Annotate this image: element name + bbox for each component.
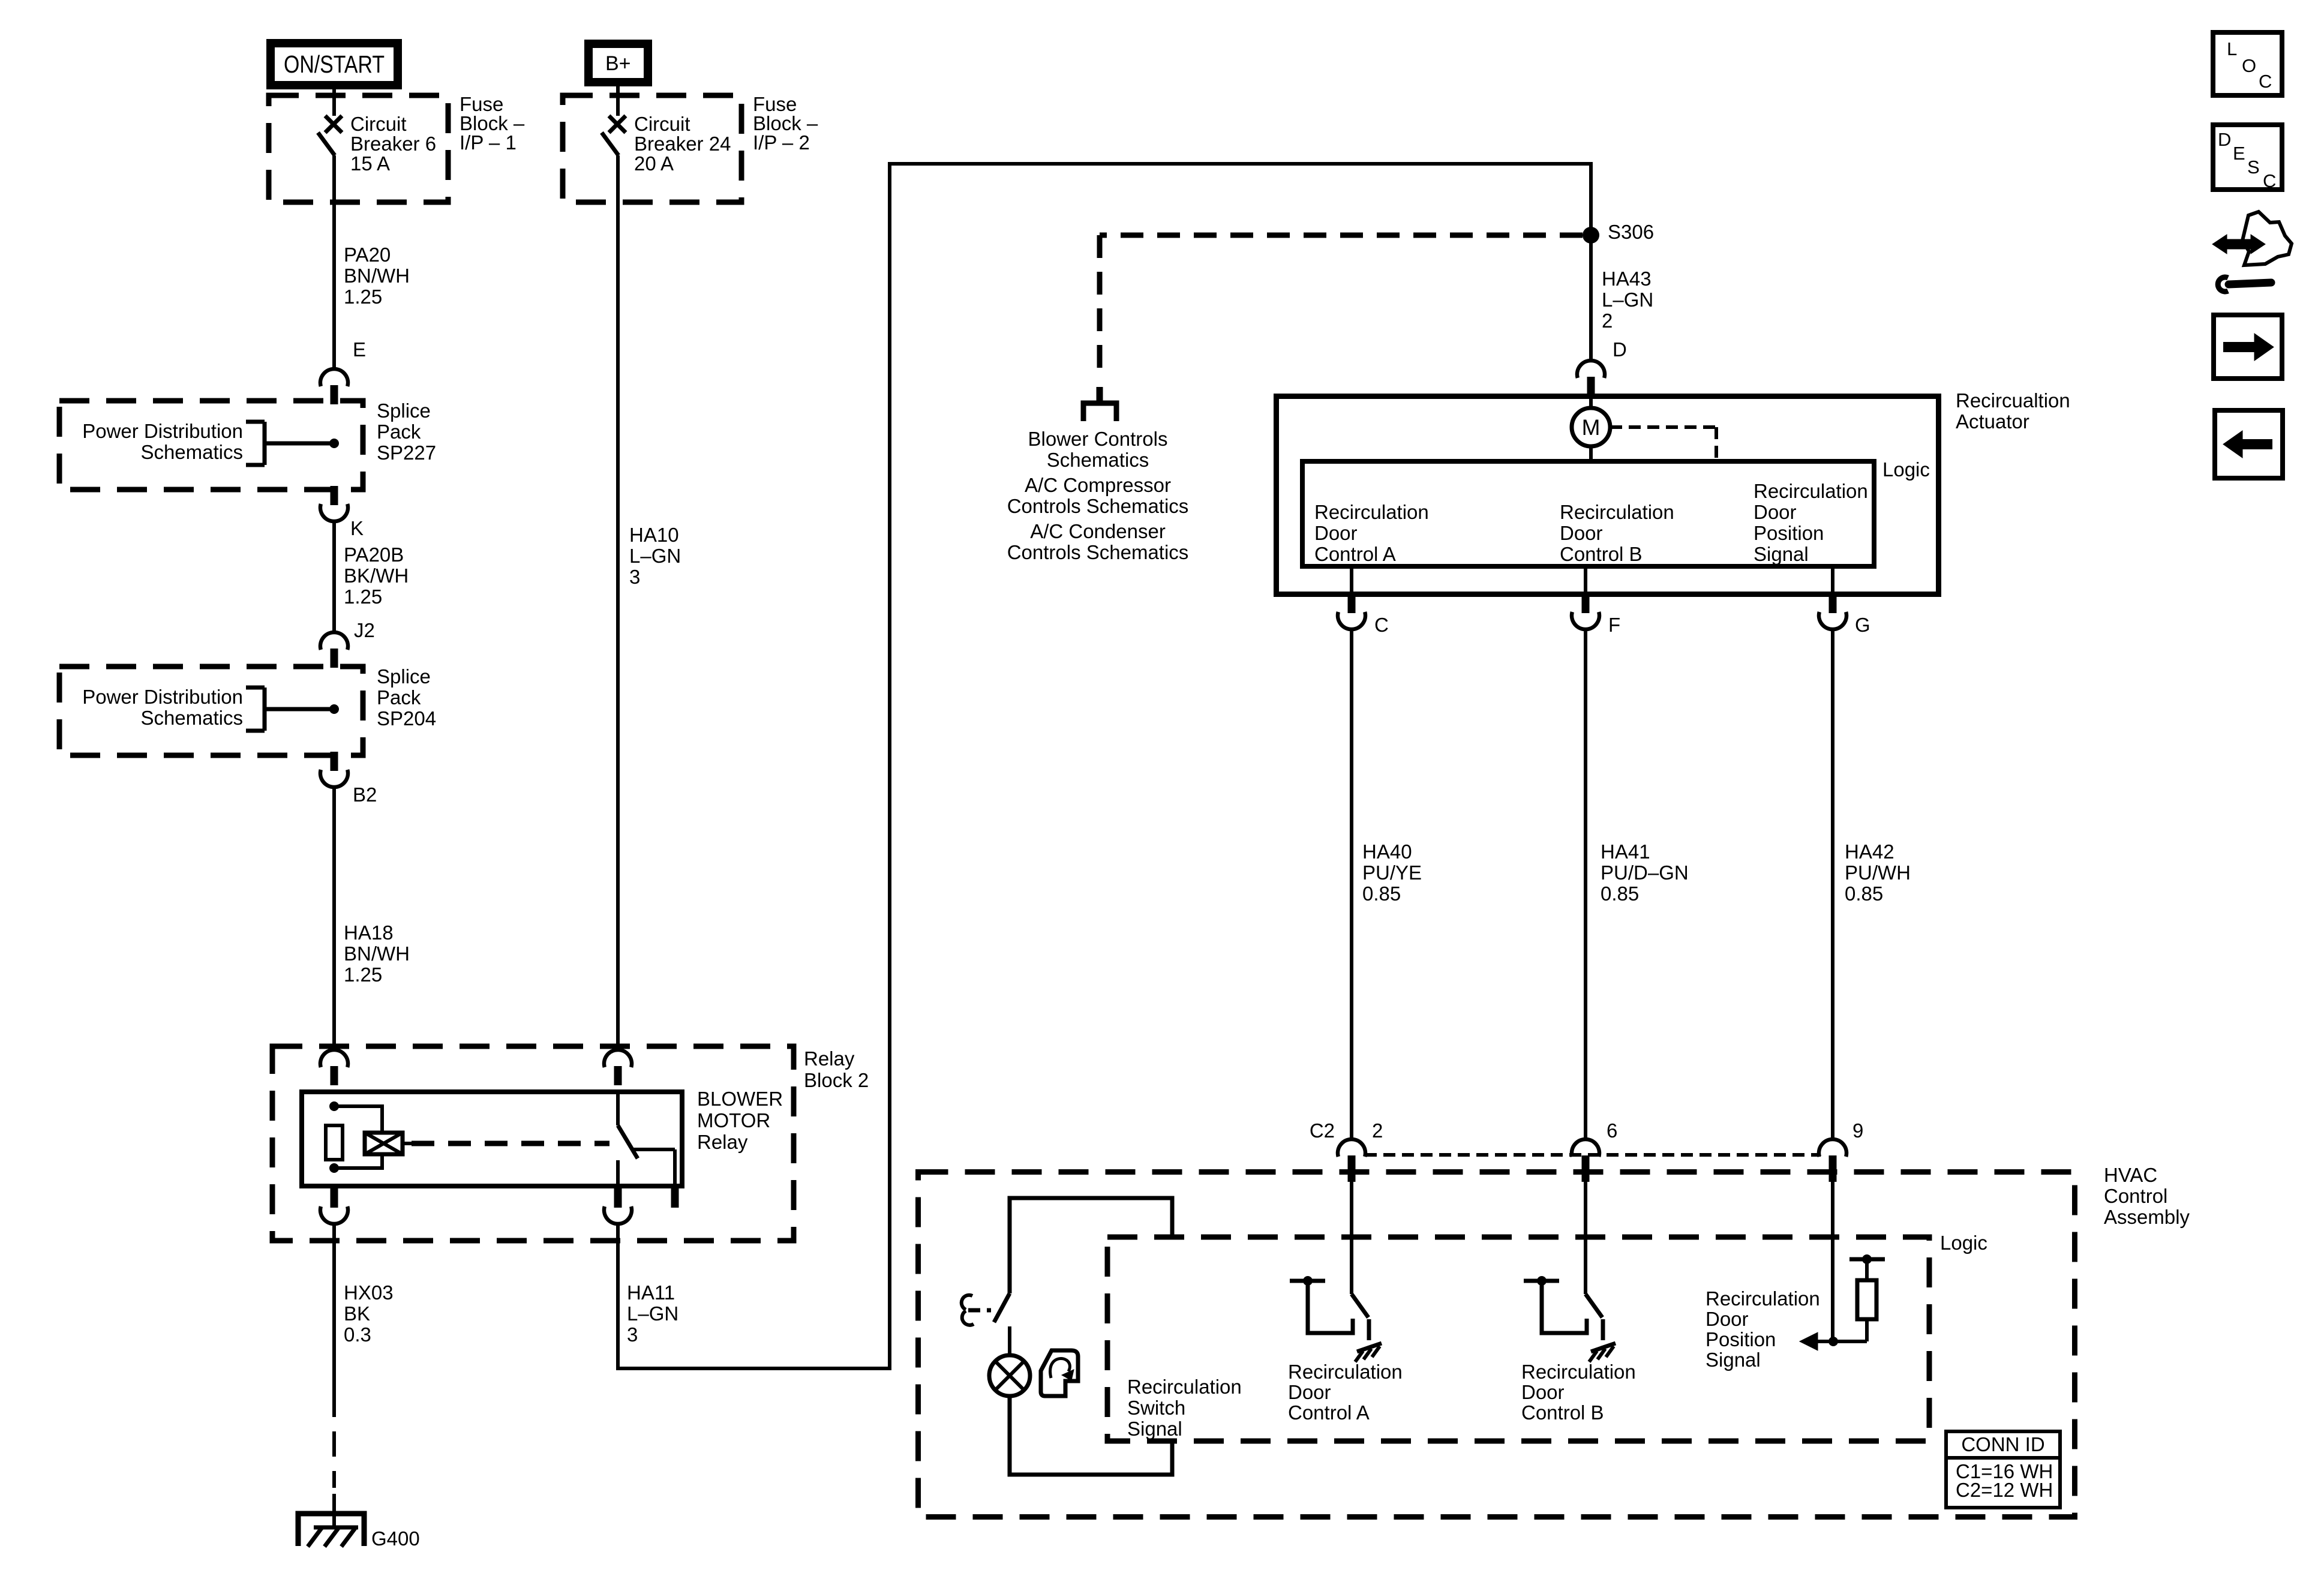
connector pin 9: [1819, 1119, 1863, 1182]
splice pack SP204 dashed box: [59, 667, 363, 755]
blower motor relay box: [302, 1092, 682, 1186]
svg-text:HA40: HA40: [1362, 840, 1412, 863]
svg-text:Breaker 6: Breaker 6: [350, 133, 436, 155]
label HA43 L-GN 2: [1602, 268, 1653, 332]
svg-text:Recirculation: Recirculation: [1706, 1287, 1820, 1310]
wire PA20B: [332, 521, 336, 632]
svg-text:Pack: Pack: [377, 421, 421, 443]
svg-text:Schematics: Schematics: [1047, 449, 1149, 471]
icon vehicle data arrow: [2212, 212, 2292, 292]
svg-text:HA11: HA11: [627, 1281, 675, 1304]
label Recirculation Door Position Signal (actuator): [1753, 480, 1868, 565]
fuse block IP1 dashed box: [269, 95, 448, 202]
svg-text:Actuator: Actuator: [1956, 410, 2029, 433]
svg-text:Splice: Splice: [377, 400, 431, 422]
svg-text:E: E: [353, 338, 366, 361]
wire pin 9 to position sense: [1831, 1182, 1834, 1341]
ground (control B): [1589, 1343, 1616, 1362]
svg-text:Position: Position: [1753, 522, 1824, 544]
svg-text:Recircualtion: Recircualtion: [1956, 389, 2070, 412]
connector relay top right: [604, 1050, 632, 1085]
node splice SP204: [329, 704, 339, 714]
resistor position sense: [1818, 1254, 1885, 1341]
svg-text:Door: Door: [1521, 1381, 1565, 1403]
svg-text:C2=12 WH: C2=12 WH: [1956, 1479, 2053, 1501]
label Blower Controls Schematics: [1028, 428, 1168, 471]
svg-text:Door: Door: [1753, 501, 1797, 523]
svg-text:2: 2: [1372, 1119, 1383, 1142]
svg-text:SP227: SP227: [377, 442, 436, 464]
svg-text:HA18: HA18: [344, 921, 394, 944]
bracket link SP227: [246, 422, 334, 465]
svg-text:Assembly: Assembly: [2104, 1206, 2190, 1228]
label Circuit Breaker 6 15 A: [350, 113, 436, 175]
HVAC control assembly dashed box: [918, 1172, 2075, 1517]
ground (control A): [1355, 1343, 1382, 1362]
C2 dashed connector link: [1365, 1153, 1821, 1157]
svg-text:C: C: [1374, 614, 1389, 636]
svg-text:A/C Compressor: A/C Compressor: [1025, 474, 1171, 496]
label HA41 PU/D-GN 0.85: [1601, 840, 1689, 905]
svg-text:D: D: [2218, 129, 2231, 150]
svg-text:Power Distribution: Power Distribution: [82, 686, 243, 708]
ground G400: [298, 1514, 420, 1550]
label HA42 PU/WH 0.85: [1845, 840, 1911, 905]
relay coil circuit: [326, 1101, 412, 1173]
fuse block IP2 dashed box: [563, 95, 741, 202]
svg-text:BN/WH: BN/WH: [344, 942, 410, 965]
connector pin E: [320, 338, 366, 404]
svg-text:PU/D–GN: PU/D–GN: [1601, 861, 1689, 884]
svg-text:Recirculation: Recirculation: [1560, 501, 1674, 523]
actuator logic box: [1302, 458, 1930, 566]
label Logic (HVAC): [1940, 1232, 1987, 1254]
power feed ON/START box: [271, 43, 398, 85]
svg-text:D: D: [1613, 338, 1627, 361]
label Recirculation Switch Signal: [1127, 1376, 1242, 1440]
connector relay bottom right: [604, 1188, 632, 1224]
switch Recirculation Door Control A: [1290, 1182, 1369, 1340]
svg-text:Blower Controls: Blower Controls: [1028, 428, 1168, 450]
label Recirculation Door Control B (actuator): [1560, 501, 1674, 565]
svg-text:Signal: Signal: [1706, 1349, 1761, 1371]
svg-text:S: S: [2247, 157, 2260, 178]
svg-text:G: G: [1855, 614, 1870, 636]
svg-text:6: 6: [1607, 1119, 1617, 1142]
label Fuse Block IP2: [753, 93, 818, 154]
svg-text:Recirculation: Recirculation: [1753, 480, 1868, 502]
svg-text:HX03: HX03: [344, 1281, 394, 1304]
svg-text:Control A: Control A: [1288, 1401, 1370, 1424]
svg-text:Control B: Control B: [1560, 543, 1643, 565]
HVAC logic dashed box: [1107, 1237, 1929, 1441]
svg-text:HA42: HA42: [1845, 840, 1894, 863]
svg-text:G400: G400: [371, 1527, 420, 1550]
svg-text:E: E: [2233, 143, 2245, 164]
svg-text:PA20B: PA20B: [344, 544, 404, 566]
svg-text:Control A: Control A: [1314, 543, 1396, 565]
svg-text:L–GN: L–GN: [1602, 289, 1653, 311]
svg-text:Breaker 24: Breaker 24: [634, 133, 731, 155]
svg-text:Logic: Logic: [1882, 458, 1930, 481]
connector relay bottom left: [320, 1188, 348, 1224]
icon arrow left: [2215, 410, 2283, 478]
circuit breaker 6: [318, 89, 342, 155]
icon LOC: [2213, 32, 2282, 95]
label Fuse Block IP1: [460, 93, 525, 154]
connector pin 6: [1572, 1119, 1617, 1182]
wire HA41: [1584, 629, 1587, 1139]
svg-text:BK: BK: [344, 1302, 370, 1325]
connector pin C: [1338, 567, 1389, 636]
svg-text:0.85: 0.85: [1601, 882, 1639, 905]
node splice SP227: [329, 439, 339, 448]
svg-text:3: 3: [627, 1323, 638, 1346]
svg-text:Circuit: Circuit: [634, 113, 690, 135]
svg-text:Pack: Pack: [377, 686, 421, 709]
label Recirculation Door Control A (actuator): [1314, 501, 1429, 565]
wire HA18: [332, 787, 336, 1050]
dashed link to blower controls: [1100, 235, 1583, 401]
svg-text:Recirculation: Recirculation: [1314, 501, 1429, 523]
splice pack SP227 dashed box: [59, 401, 363, 490]
svg-text:Block 2: Block 2: [804, 1069, 869, 1091]
label HA18 BN/WH 1.25: [344, 921, 410, 986]
svg-text:PA20: PA20: [344, 244, 391, 266]
recirculation switch wiring loop: [1010, 1198, 1172, 1475]
wire HA40: [1350, 629, 1353, 1139]
connector C2 pin 2: [1310, 1119, 1383, 1182]
motor M: [1572, 397, 1610, 463]
svg-text:Door: Door: [1560, 522, 1603, 544]
connector pin D: [1577, 338, 1627, 396]
wire HX03 to ground: [332, 1224, 336, 1527]
CONN ID table: [1944, 1431, 2062, 1508]
svg-text:Door: Door: [1314, 522, 1358, 544]
svg-text:2: 2: [1602, 310, 1613, 332]
relay switch: [618, 1091, 679, 1208]
switch Recirculation Door Control B: [1524, 1182, 1603, 1340]
icon DESC: [2213, 125, 2282, 191]
power feed B+ box: [588, 44, 648, 82]
label Recirculation Door Position Signal (HVAC): [1706, 1287, 1820, 1371]
svg-text:L: L: [2227, 38, 2237, 59]
label Splice Pack SP227: [377, 400, 436, 464]
svg-text:C2: C2: [1310, 1119, 1335, 1142]
svg-text:I/P – 2: I/P – 2: [753, 131, 810, 154]
label PA20B BK/WH 1.25: [344, 544, 409, 608]
label BLOWER MOTOR Relay: [697, 1088, 783, 1153]
label HA11 L-GN 3: [627, 1281, 678, 1346]
svg-text:HVAC: HVAC: [2104, 1164, 2157, 1186]
connector pin J2: [320, 619, 375, 668]
connector pin G: [1819, 567, 1870, 636]
svg-text:Splice: Splice: [377, 665, 431, 688]
svg-text:BN/WH: BN/WH: [344, 265, 410, 287]
label PA20 BN/WH 1.25: [344, 244, 410, 308]
svg-text:CONN ID: CONN ID: [1961, 1433, 2044, 1455]
label Recircualtion Actuator: [1956, 389, 2070, 433]
connector pin K: [320, 486, 364, 539]
svg-text:HA41: HA41: [1601, 840, 1650, 863]
recirculation door icon: [1041, 1350, 1078, 1396]
svg-text:L–GN: L–GN: [629, 545, 681, 567]
label HX03 BK 0.3: [344, 1281, 394, 1346]
svg-text:A/C Condenser: A/C Condenser: [1030, 520, 1166, 542]
svg-text:S306: S306: [1608, 221, 1654, 243]
recirculation switch blade: [994, 1293, 1010, 1322]
wire HA42: [1831, 629, 1834, 1139]
svg-text:Position: Position: [1706, 1328, 1776, 1350]
svg-text:15 A: 15 A: [350, 152, 390, 175]
svg-text:J2: J2: [354, 619, 375, 641]
svg-text:0.85: 0.85: [1362, 882, 1401, 905]
circuit breaker 24: [602, 86, 626, 155]
svg-text:PU/YE: PU/YE: [1362, 861, 1422, 884]
svg-text:Signal: Signal: [1127, 1418, 1182, 1440]
svg-text:Logic: Logic: [1940, 1232, 1987, 1254]
label Circuit Breaker 24 20 A: [634, 113, 731, 175]
svg-text:Controls Schematics: Controls Schematics: [1007, 495, 1189, 517]
wire PA20: [332, 155, 336, 367]
label HA10 L-GN 3: [629, 524, 681, 588]
svg-text:1.25: 1.25: [344, 286, 382, 308]
svg-text:F: F: [1608, 614, 1620, 636]
svg-text:Power Distribution: Power Distribution: [82, 420, 243, 442]
svg-text:SP204: SP204: [377, 707, 436, 730]
bracket link SP204: [246, 688, 334, 731]
svg-text:Relay: Relay: [804, 1047, 855, 1070]
svg-text:B2: B2: [353, 784, 377, 806]
node S306: [1583, 221, 1654, 244]
svg-text:20 A: 20 A: [634, 152, 674, 175]
svg-text:O: O: [2242, 55, 2256, 76]
switch mechanical link: [962, 1295, 991, 1325]
svg-text:I/P – 1: I/P – 1: [460, 131, 517, 154]
svg-text:BK/WH: BK/WH: [344, 565, 409, 587]
svg-text:Schematics: Schematics: [140, 441, 243, 463]
bracket blower controls: [1083, 403, 1116, 421]
relay block 2 dashed box: [272, 1046, 794, 1241]
svg-text:3: 3: [629, 566, 640, 588]
svg-text:Recirculation: Recirculation: [1288, 1361, 1403, 1383]
arrow position signal: [1800, 1332, 1818, 1350]
label Power Distribution Schematics (SP204): [82, 686, 243, 729]
svg-text:0.3: 0.3: [344, 1323, 371, 1346]
svg-text:MOTOR: MOTOR: [697, 1109, 770, 1131]
svg-text:1.25: 1.25: [344, 963, 382, 986]
svg-text:Relay: Relay: [697, 1131, 748, 1153]
label Relay Block 2: [804, 1047, 869, 1091]
svg-text:M: M: [1582, 415, 1601, 440]
svg-text:Control: Control: [2104, 1185, 2167, 1207]
svg-text:Door: Door: [1288, 1381, 1331, 1403]
motor-logic dashed link: [1610, 427, 1716, 461]
label Recirculation Door Control B (HVAC): [1521, 1361, 1636, 1424]
label A/C Condenser Controls Schematics: [1007, 520, 1189, 563]
svg-text:Signal: Signal: [1753, 543, 1809, 565]
svg-text:Switch: Switch: [1127, 1397, 1185, 1419]
label HA40 PU/YE 0.85: [1362, 840, 1422, 905]
svg-text:C: C: [2263, 170, 2276, 191]
node position signal: [1828, 1337, 1838, 1346]
svg-text:PU/WH: PU/WH: [1845, 861, 1911, 884]
svg-text:HA10: HA10: [629, 524, 679, 546]
icon arrow right: [2214, 315, 2282, 379]
svg-text:Door: Door: [1706, 1308, 1749, 1330]
svg-text:K: K: [350, 517, 364, 539]
connector relay top left: [320, 1050, 348, 1085]
relay coil-switch dashed link: [412, 1141, 609, 1146]
indicator lamp: [989, 1355, 1030, 1396]
svg-text:Controls Schematics: Controls Schematics: [1007, 541, 1189, 563]
svg-text:ON/START: ON/START: [284, 50, 385, 78]
label Splice Pack SP204: [377, 665, 436, 730]
svg-text:HA43: HA43: [1602, 268, 1652, 290]
svg-text:Recirculation: Recirculation: [1521, 1361, 1636, 1383]
label Power Distribution Schematics (SP227): [82, 420, 243, 463]
svg-text:0.85: 0.85: [1845, 882, 1883, 905]
svg-text:B+: B+: [605, 52, 631, 75]
label Recirculation Door Control A (HVAC): [1288, 1361, 1403, 1424]
svg-text:1.25: 1.25: [344, 586, 382, 608]
connector pin B2: [320, 752, 377, 806]
svg-text:Circuit: Circuit: [350, 113, 407, 135]
wire HA11 loop to S306: [618, 164, 1591, 1368]
wire HA10: [616, 155, 620, 1050]
svg-text:C: C: [2259, 71, 2272, 92]
label HVAC Control Assembly: [2104, 1164, 2190, 1228]
svg-text:Schematics: Schematics: [140, 707, 243, 729]
label A/C Compressor Controls Schematics: [1007, 474, 1189, 517]
svg-text:Recirculation: Recirculation: [1127, 1376, 1242, 1398]
recirculation actuator box: [1277, 397, 1939, 595]
svg-text:9: 9: [1852, 1119, 1863, 1142]
connector pin F: [1572, 567, 1620, 636]
svg-text:BLOWER: BLOWER: [697, 1088, 783, 1110]
svg-text:L–GN: L–GN: [627, 1302, 678, 1325]
svg-text:Control B: Control B: [1521, 1401, 1604, 1424]
